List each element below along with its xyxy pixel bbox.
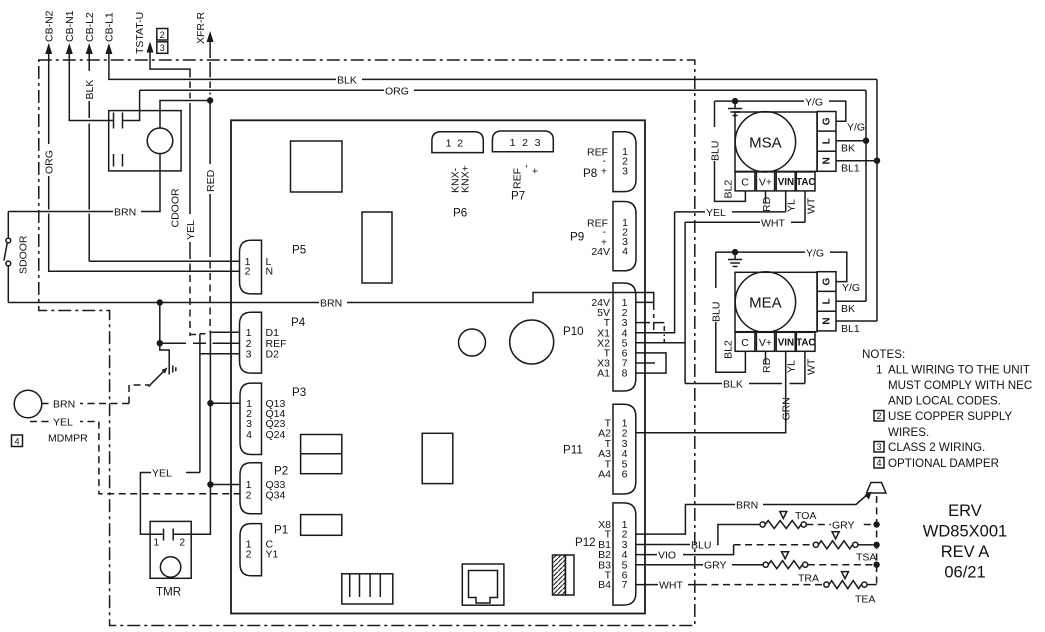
svg-text:6: 6 — [622, 469, 628, 481]
wire BRN main run (SDOOR to P10 pin 1 step) — [8, 293, 653, 303]
control board outline — [231, 120, 645, 613]
svg-text:G: G — [822, 277, 833, 285]
svg-text:BLU: BLU — [691, 540, 711, 552]
wire TSTAT-U (YEL) down to P4 area — [150, 51, 190, 215]
svg-text:4: 4 — [622, 246, 628, 258]
svg-text:C: C — [741, 337, 749, 349]
ground symbol MEA — [728, 252, 742, 266]
svg-text:BK: BK — [841, 303, 855, 315]
wire ORG top (CDOOR contact across top to right bus) — [140, 89, 866, 91]
svg-text:4: 4 — [246, 429, 252, 441]
svg-text:2: 2 — [245, 266, 251, 278]
svg-text:BK: BK — [841, 143, 855, 155]
svg-text:MEA: MEA — [749, 295, 782, 312]
wire P4 D2 stub — [200, 353, 240, 355]
wire P10 pin5 X2 riser (WHT up / BLK down) — [636, 222, 685, 383]
svg-text:CB-L1: CB-L1 — [104, 12, 116, 42]
svg-text:OPTIONAL DAMPER: OPTIONAL DAMPER — [888, 457, 999, 470]
svg-text:Q24: Q24 — [266, 429, 286, 441]
thermal cutout contact — [149, 343, 176, 386]
component rectangle U4 — [301, 515, 342, 536]
svg-text:3: 3 — [622, 166, 628, 178]
CDOOR contact bars (top) — [114, 113, 123, 129]
svg-text:P8: P8 — [583, 167, 597, 180]
svg-text:3: 3 — [246, 348, 252, 360]
svg-text:2: 2 — [180, 538, 186, 549]
svg-text:D2: D2 — [266, 348, 280, 360]
connector P4 — [240, 312, 306, 373]
svg-text:YEL: YEL — [185, 220, 197, 240]
svg-text:P6: P6 — [453, 207, 467, 220]
motor MSA assembly — [675, 95, 881, 229]
svg-text:MUST COMPLY WITH NEC: MUST COMPLY WITH NEC — [888, 379, 1032, 392]
note ref box 3 — [157, 42, 168, 54]
svg-text:GRN: GRN — [781, 397, 793, 420]
wire CB-L2 (BLK) to P5 pin 1 — [88, 52, 90, 71]
svg-text:A4: A4 — [598, 469, 611, 481]
svg-text:2: 2 — [457, 138, 463, 150]
svg-text:G: G — [822, 117, 833, 125]
svg-text:-: - — [521, 164, 533, 168]
svg-text:3: 3 — [535, 137, 541, 149]
junction dot BRN / REF drop — [157, 299, 163, 305]
wire WHT P12 pin7 to TEA sensor — [636, 584, 700, 586]
wire YEL to VIN — [675, 191, 786, 212]
wire YEL to TMR terminal 1 — [140, 334, 200, 534]
connector P2 — [240, 463, 288, 514]
wire P10 pin3 T dash-dot stub — [636, 322, 650, 324]
svg-text:V+: V+ — [759, 176, 772, 188]
thermistor TOA — [760, 510, 816, 529]
component hatched part — [553, 555, 575, 595]
svg-text:1: 1 — [154, 538, 160, 549]
svg-text:BRN: BRN — [114, 207, 136, 219]
component stacked relay K1 — [301, 435, 342, 474]
wire Y/G top run with ground — [716, 252, 847, 282]
svg-text:REV A: REV A — [941, 543, 990, 561]
wire GRN P11 pin2 to MEA VIN — [636, 351, 786, 432]
connector P9 — [570, 202, 636, 271]
svg-text:V+: V+ — [759, 337, 772, 349]
timer TMR — [150, 521, 210, 598]
svg-text:NOTES:: NOTES: — [862, 348, 905, 361]
MSA body — [735, 112, 817, 171]
wire RED chain (P4 D1 / P3 / P2 / TMR terminal 2) — [177, 332, 240, 534]
svg-text:GRY: GRY — [704, 560, 727, 572]
svg-text:TAC: TAC — [796, 337, 815, 348]
svg-text:REF: REF — [511, 168, 523, 189]
svg-text:7: 7 — [622, 579, 628, 591]
svg-text:3: 3 — [876, 442, 881, 452]
connector P5 — [240, 240, 307, 294]
wire P10 pin1 24V stub — [636, 301, 654, 303]
wire CDOOR coil top to XFR-R junction — [160, 101, 210, 129]
MEA body — [735, 272, 817, 331]
svg-text:WHT: WHT — [659, 580, 683, 592]
svg-text:BRN: BRN — [53, 399, 75, 411]
svg-text:TEA: TEA — [855, 594, 875, 606]
wire XFR-R (RED) down to P4 pin 1 — [209, 40, 211, 164]
svg-text:TRA: TRA — [798, 573, 819, 585]
svg-text:USE COPPER SUPPLY: USE COPPER SUPPLY — [888, 410, 1012, 423]
svg-text:BLU: BLU — [709, 141, 721, 161]
svg-text:4: 4 — [876, 458, 881, 468]
wire BRN P12 pin2 to sensor head — [636, 493, 870, 534]
wire dash-dot remnant below pin1 — [653, 302, 655, 330]
wire BK terminal L to bus — [836, 140, 866, 142]
svg-text:BL2: BL2 — [723, 180, 735, 199]
svg-text:TAC: TAC — [796, 177, 815, 188]
connector P8 — [583, 132, 636, 192]
node CB-L1 arrow — [104, 12, 116, 54]
svg-text:BLK: BLK — [337, 75, 357, 87]
sensor head (outside air) — [865, 483, 887, 500]
bus BLK right vertical to BL1 terminals — [876, 79, 878, 321]
wire dashed sensor bus vertical — [876, 496, 878, 585]
svg-text:P9: P9 — [570, 231, 584, 244]
svg-text:Y/G: Y/G — [805, 96, 823, 108]
switch SDOOR — [4, 212, 30, 303]
unit enclosure dash-dot boundary — [39, 60, 695, 626]
svg-text:GRY: GRY — [832, 520, 855, 532]
svg-text:1: 1 — [510, 137, 516, 149]
wire BLK to TAC — [685, 351, 805, 383]
svg-text:TSA: TSA — [856, 552, 876, 564]
MEA terminal block G L N — [817, 272, 836, 331]
svg-text:2: 2 — [246, 548, 252, 560]
notes block — [862, 348, 1032, 470]
svg-text:MSA: MSA — [749, 135, 782, 152]
wire BLK main (CB-L1 across top to right bus) — [109, 52, 877, 79]
svg-text:P12: P12 — [575, 536, 596, 549]
title block ERV — [923, 502, 1007, 582]
connector P12 — [575, 503, 636, 605]
wire BK terminal L to bus — [836, 300, 866, 302]
junction dot P3 pin1 — [207, 400, 213, 406]
wire P10 T-A1 jumper — [636, 353, 666, 373]
svg-text:VIN: VIN — [778, 177, 794, 188]
svg-text:BL1: BL1 — [841, 323, 860, 335]
MSA terminal block G L N — [817, 112, 836, 172]
svg-text:Y/G: Y/G — [806, 247, 824, 259]
svg-text:BL1: BL1 — [841, 163, 860, 175]
svg-text:WT: WT — [806, 358, 818, 375]
MEA circle — [735, 272, 795, 332]
svg-text:A1: A1 — [597, 368, 610, 380]
svg-text:ORG: ORG — [385, 85, 409, 97]
svg-text:YEL: YEL — [152, 468, 172, 480]
svg-text:CB-L2: CB-L2 — [84, 12, 96, 42]
svg-text:YL: YL — [785, 360, 797, 373]
svg-text:P5: P5 — [292, 244, 306, 257]
svg-text:XFR-R: XFR-R — [195, 12, 207, 44]
svg-text:YEL: YEL — [706, 207, 726, 219]
connector P1 — [240, 524, 288, 576]
CDOOR spare contact bars (bottom) — [114, 154, 123, 167]
node CB-L2 arrow — [84, 12, 96, 54]
thermistor TSA — [813, 532, 876, 564]
svg-text:MDMPR: MDMPR — [48, 433, 88, 445]
component rectangle U2 — [362, 212, 392, 283]
svg-text:VIN: VIN — [778, 337, 794, 348]
component header J1 — [342, 574, 393, 604]
svg-text:B4: B4 — [598, 579, 611, 591]
svg-text:RD: RD — [761, 357, 773, 373]
wire CDOOR contact to ORG riser — [123, 90, 140, 120]
node XFR-R arrow — [195, 12, 214, 44]
svg-text:ERV: ERV — [948, 502, 982, 520]
motor MDMPR circle — [14, 390, 42, 418]
svg-text:P10: P10 — [563, 325, 584, 338]
svg-text:VIO: VIO — [658, 550, 676, 562]
switch CDOOR body — [109, 111, 181, 171]
wire dashed YEL from MDMPR to P2 pin 2 — [30, 422, 240, 494]
svg-text:TMR: TMR — [156, 586, 181, 599]
svg-text:N: N — [822, 317, 833, 324]
node TSTAT-U arrow — [134, 12, 154, 54]
wire P10 pin4 X1 to YEL riser — [636, 212, 675, 333]
component circle D1 small — [459, 329, 486, 356]
component square U1 — [291, 141, 343, 192]
svg-text:CB-N2: CB-N2 — [44, 10, 56, 42]
svg-text:BRN: BRN — [736, 500, 758, 512]
svg-text:1: 1 — [876, 364, 882, 377]
connector P6 — [432, 132, 483, 220]
wire Y/G top run with ground — [715, 101, 846, 121]
MEA pigtail terminals C V+ VIN TAC — [735, 332, 815, 351]
node CB-N1 arrow — [64, 10, 76, 54]
node CB-N2 arrow — [44, 10, 56, 54]
thermistor TEA — [824, 572, 876, 606]
svg-text:BLK: BLK — [723, 379, 743, 391]
svg-text:RD: RD — [761, 196, 773, 212]
svg-text:RED: RED — [205, 169, 217, 192]
junction dot XFR-R / CDOOR coil — [207, 97, 213, 103]
svg-text:8: 8 — [622, 368, 628, 380]
junction dot P2 pin1 — [207, 481, 213, 487]
MSA pigtail terminals C V+ VIN TAC — [735, 172, 815, 191]
svg-text:WHT: WHT — [761, 217, 785, 229]
svg-text:P2: P2 — [274, 465, 288, 478]
svg-text:N: N — [266, 266, 274, 278]
svg-text:WD85X001: WD85X001 — [923, 523, 1007, 541]
svg-text:CB-N1: CB-N1 — [64, 10, 76, 42]
svg-text:CDOOR: CDOOR — [170, 188, 182, 228]
wire VIO P12 pin4 to TSA sensor — [636, 545, 734, 555]
svg-text:1: 1 — [446, 138, 452, 150]
svg-text:+: + — [530, 168, 542, 174]
connector P3 — [240, 383, 306, 454]
wire GRY P12 pin5 to sensor — [636, 564, 763, 566]
svg-text:P7: P7 — [511, 190, 525, 203]
wire CB-N1 to CDOOR contact — [69, 52, 113, 121]
svg-text:BLU: BLU — [711, 302, 723, 322]
svg-text:Y/G: Y/G — [842, 282, 860, 294]
svg-text:AND LOCAL CODES.: AND LOCAL CODES. — [888, 395, 1001, 408]
connector P7 — [492, 131, 553, 203]
svg-text:ORG: ORG — [43, 150, 55, 174]
connector P10 — [563, 283, 636, 391]
svg-text:3: 3 — [160, 43, 165, 53]
wire BL1 terminal N to bus — [836, 320, 877, 322]
svg-text:Q34: Q34 — [266, 490, 286, 502]
note ref box 4 — [12, 435, 23, 447]
component rectangle U3 — [422, 433, 453, 483]
svg-text:24V: 24V — [591, 246, 610, 258]
component RJ45 jack — [462, 564, 504, 605]
thermistor (GRY row) — [763, 552, 808, 569]
CDOOR coil circle — [147, 128, 173, 154]
wire CDOOR coil bottom (BRN) to SDOOR — [8, 154, 160, 212]
svg-text:P3: P3 — [292, 386, 306, 399]
svg-text:Y/G: Y/G — [847, 122, 865, 134]
svg-text:ALL WIRING TO THE UNIT: ALL WIRING TO THE UNIT — [888, 364, 1030, 377]
component circle D2 large — [510, 320, 554, 364]
svg-text:2: 2 — [522, 137, 528, 149]
svg-text:WIRES.: WIRES. — [888, 426, 929, 439]
svg-text:BL2: BL2 — [723, 340, 735, 359]
wire RD stub — [765, 191, 767, 203]
svg-text:+: + — [601, 166, 607, 178]
svg-text:L: L — [822, 138, 833, 144]
svg-text:4: 4 — [14, 436, 19, 446]
note ref box 2 — [157, 29, 168, 41]
svg-text:P1: P1 — [274, 524, 288, 537]
wire P10 pin7 X3 stub — [636, 362, 655, 364]
wire WHT to TAC — [685, 191, 805, 222]
svg-text:TOA: TOA — [795, 510, 816, 522]
motor MEA assembly — [685, 246, 877, 391]
svg-text:P4: P4 — [291, 316, 306, 329]
wire BLU P12 pin3 to TOA sensor — [636, 525, 760, 545]
wire common drop to P4 REF — [160, 303, 240, 344]
wire GRY dashed to bus — [806, 524, 873, 526]
svg-text:C: C — [741, 176, 749, 188]
wire BL2/BLU hook to C — [715, 101, 746, 201]
svg-text:CLASS 2 WIRING.: CLASS 2 WIRING. — [888, 441, 985, 454]
svg-text:2: 2 — [160, 30, 165, 40]
svg-text:Y1: Y1 — [266, 548, 279, 560]
wire BL2/BLU hook to C — [716, 252, 746, 372]
wire CB-N2 (ORG) to P5 pin 2 — [48, 52, 50, 144]
wire RD stub — [765, 351, 767, 364]
bus ORG right vertical to BK terminals — [865, 90, 867, 301]
svg-text:L: L — [822, 298, 833, 304]
svg-text:2: 2 — [246, 490, 252, 502]
MSA circle — [735, 112, 795, 172]
svg-text:BRN: BRN — [320, 298, 342, 310]
svg-text:TSTAT-U: TSTAT-U — [134, 12, 146, 54]
svg-text:KNX+: KNX+ — [459, 165, 471, 193]
svg-text:06/21: 06/21 — [944, 564, 985, 582]
wire BL1 terminal N to bus — [836, 160, 877, 162]
connector P11 — [563, 404, 636, 494]
svg-text:YL: YL — [785, 199, 797, 212]
svg-text:P11: P11 — [563, 444, 583, 457]
svg-text:2: 2 — [876, 411, 881, 421]
svg-text:SDOOR: SDOOR — [18, 235, 30, 274]
ground symbol MSA — [728, 101, 742, 115]
svg-text:WT: WT — [806, 197, 818, 214]
svg-text:BLK: BLK — [84, 80, 96, 100]
junction dot REF stub — [157, 340, 163, 346]
svg-text:YEL: YEL — [53, 417, 73, 429]
svg-text:N: N — [822, 157, 833, 164]
wire dashed BRN from MDMPR to thermal cutout — [42, 403, 129, 405]
